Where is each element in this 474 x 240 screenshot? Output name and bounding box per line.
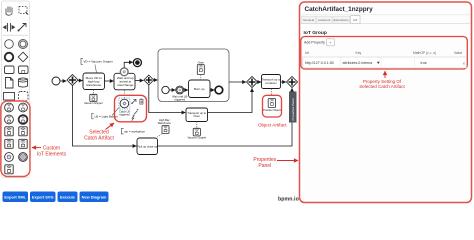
tab Listeners <box>317 16 333 23</box>
svg-text:Add Property: Add Property <box>304 41 325 45</box>
palette gateway <box>18 52 28 62</box>
task1 Move VD to high bay warehouse <box>83 73 105 90</box>
button New Diagram <box>80 192 109 203</box>
tab General <box>302 16 316 23</box>
gatewayA parallel <box>144 75 154 85</box>
wire to Burn up <box>184 89 188 91</box>
custom palette row1b: sensor artifact circle <box>19 103 28 112</box>
context pad trash icon <box>139 99 143 104</box>
svg-text:Oven: Oven <box>198 61 205 65</box>
palette participant <box>4 93 15 101</box>
vacuum gripper artifact under task6 <box>187 122 206 140</box>
wire gatewayA down to task6 <box>149 85 186 113</box>
custom palette row5b: object circle double <box>19 153 28 162</box>
table headers <box>305 51 462 55</box>
add property button <box>327 39 335 46</box>
intermediate catch event Wait until LB triggered <box>172 86 187 101</box>
context pad connect icon <box>131 99 136 104</box>
property row <box>303 57 467 68</box>
wire Burn up to end <box>210 89 214 91</box>
svg-text:container: container <box>265 81 277 85</box>
svg-text:Warehouse: Warehouse <box>158 121 172 125</box>
svg-text:Oven: Oven <box>193 114 200 118</box>
wire gateway1 to task1 <box>78 80 83 82</box>
svg-text:IoT: IoT <box>353 18 358 22</box>
palette global connect tool <box>18 24 27 32</box>
palette hand tool <box>6 7 12 16</box>
svg-text:wp = workpiece: wp = workpiece <box>124 130 145 134</box>
start event subprocess <box>162 86 169 93</box>
context pad lightning icon <box>132 116 135 121</box>
svg-text:VD = Vacuum Gripper: VD = Vacuum Gripper <box>84 60 113 64</box>
context pad wrench icon <box>133 109 138 116</box>
custom palette row3b: sensor box <box>19 127 27 136</box>
svg-text:Export SVG: Export SVG <box>32 194 54 199</box>
svg-text:bpmn.io: bpmn.io <box>278 196 299 202</box>
custom palette row3: sensor box <box>5 127 13 136</box>
svg-text:General: General <box>303 18 314 22</box>
svg-text:New Diagram: New Diagram <box>82 194 107 199</box>
svg-text:interchange: interchange <box>117 83 133 87</box>
svg-text:Pick up close up: Pick up close up <box>137 144 158 148</box>
svg-text:triggered: triggered <box>119 112 130 116</box>
end event top <box>133 59 141 67</box>
palette container <box>2 1 30 178</box>
palette data store <box>19 78 28 87</box>
task2 Wait until up arrival at interchange <box>114 73 135 90</box>
svg-text:Value: Value <box>454 51 462 55</box>
object artifact transfer object <box>263 95 282 117</box>
arrow to properties panel <box>277 160 298 162</box>
annotation wp = workpiece <box>122 128 146 134</box>
arrow to selected catch artifact <box>106 123 115 130</box>
palette start event <box>5 40 14 49</box>
svg-text:Property Setting Of: Property Setting Of <box>363 79 402 84</box>
palette subprocess <box>19 66 29 74</box>
wire task4 to transfer object <box>271 89 273 95</box>
svg-text:Execute: Execute <box>60 194 76 199</box>
task3 Burn up <box>189 80 211 98</box>
svg-text:triggered: triggered <box>174 97 185 101</box>
svg-text:Object Artifact: Object Artifact <box>258 122 287 127</box>
gateway1 parallel <box>67 75 78 86</box>
palette separator <box>3 34 28 36</box>
custom palette row2: catch artifact circle <box>5 115 14 124</box>
gateway2 parallel <box>247 77 258 88</box>
annotation VD = Vacuum Gripper <box>81 58 113 73</box>
custom palette row1: sensor artifact circle <box>5 103 14 112</box>
properties panel background <box>300 2 472 203</box>
panel title divider <box>300 14 471 16</box>
palette lasso tool <box>19 7 28 15</box>
custom palette row2b: throw artifact circle thick <box>19 115 28 124</box>
end event subprocess <box>215 86 223 94</box>
button Execute <box>58 192 78 203</box>
svg-text:attributes.0.interna: attributes.0.interna <box>343 61 373 65</box>
task5 Pick up close up <box>137 138 158 155</box>
palette data object <box>6 78 14 89</box>
palette space tool <box>4 23 15 32</box>
svg-text:Key: Key <box>356 51 362 55</box>
task4 Transport up to container <box>262 75 281 89</box>
svg-text:Url: Url <box>305 51 309 55</box>
wire sensor to end event <box>124 62 133 68</box>
palette end event <box>5 53 13 61</box>
svg-text:IoT Elements: IoT Elements <box>37 152 67 158</box>
wire task1 to task2 <box>105 80 114 82</box>
selected catch artifact circle <box>119 98 130 116</box>
svg-text:Burn up: Burn up <box>194 87 205 91</box>
wire task2 to gatewayA <box>135 80 143 82</box>
custom palette row6: object box <box>5 165 13 174</box>
wire subprocess to gateway2 <box>229 81 246 83</box>
label Property Setting Of Selected Catch Artifact <box>359 79 405 89</box>
task6 Transport up to Oven <box>186 108 208 122</box>
tab IoT selected <box>351 16 361 24</box>
arrow property setting <box>384 71 386 78</box>
svg-text:Extensions: Extensions <box>334 18 350 22</box>
svg-text:Catch Artifact: Catch Artifact <box>84 136 114 142</box>
button Export SVG <box>30 192 56 203</box>
properties panel toggle tab <box>289 92 297 123</box>
svg-text:Vacuum Gripper: Vacuum Gripper <box>187 136 206 140</box>
gateway3 parallel <box>287 77 298 88</box>
sensor artifact on task2 <box>120 68 128 76</box>
label Properties Panel <box>253 157 276 169</box>
svg-text:true: true <box>421 61 427 65</box>
svg-text:Export XML: Export XML <box>4 194 26 199</box>
label Selected Catch Artifact <box>84 130 114 142</box>
custom palette row4: actuator box <box>5 139 13 148</box>
wire task4 to gateway3 <box>281 81 286 83</box>
svg-text:Properties Panel: Properties Panel <box>291 98 295 121</box>
svg-text:Selected Catch Artifact: Selected Catch Artifact <box>359 84 405 89</box>
annotation LB = Light Barrier <box>92 107 120 119</box>
svg-text:Transfer Object: Transfer Object <box>263 108 281 112</box>
high bay warehouse artifact <box>156 118 171 138</box>
wire to catch event <box>169 89 175 91</box>
tab Extensions <box>333 16 350 23</box>
svg-text:x: x <box>463 61 465 65</box>
svg-text:CatchArtifact_1nzppry: CatchArtifact_1nzppry <box>305 6 374 13</box>
svg-text:IoT Group: IoT Group <box>304 30 327 36</box>
wire start to gateway1 <box>60 80 66 82</box>
oven artifact <box>197 61 204 80</box>
wire gatewayA to subprocess <box>154 79 158 81</box>
custom palette row5: object circle <box>5 153 14 162</box>
svg-text:http://127.0.0.1:50: http://127.0.0.1:50 <box>305 61 334 65</box>
button Export XML <box>3 192 29 203</box>
start event <box>52 77 60 85</box>
palette group <box>19 92 29 102</box>
inner red box property editor <box>301 37 468 70</box>
palette intermediate event <box>19 40 28 49</box>
arrow to custom palette <box>32 147 41 149</box>
custom palette row4b: actuator box <box>19 139 27 148</box>
vacuum gripper artifact under task1 <box>84 90 103 105</box>
wire gateway1 down to task5 <box>73 86 137 147</box>
svg-text:Listeners: Listeners <box>318 18 331 22</box>
svg-text:warehouse: warehouse <box>86 83 101 87</box>
label Custom IoT Elements <box>37 146 67 158</box>
svg-text:MathOP (c, r, s): MathOP (c, r, s) <box>413 51 436 55</box>
wire task5 to gateway3 <box>158 88 293 146</box>
red selection box catch artifact <box>115 95 147 122</box>
svg-text:Panel: Panel <box>258 163 271 169</box>
wire task2 to catch artifact <box>124 90 126 99</box>
red outline custom palette <box>1 101 30 177</box>
tab underline <box>300 22 351 24</box>
palette task <box>5 66 15 74</box>
svg-text:Vacuum Gripper: Vacuum Gripper <box>84 101 103 105</box>
subprocess container <box>158 49 229 102</box>
wire task6 to gateway2 <box>208 88 253 112</box>
wire gateway2 to task4 <box>258 81 262 83</box>
